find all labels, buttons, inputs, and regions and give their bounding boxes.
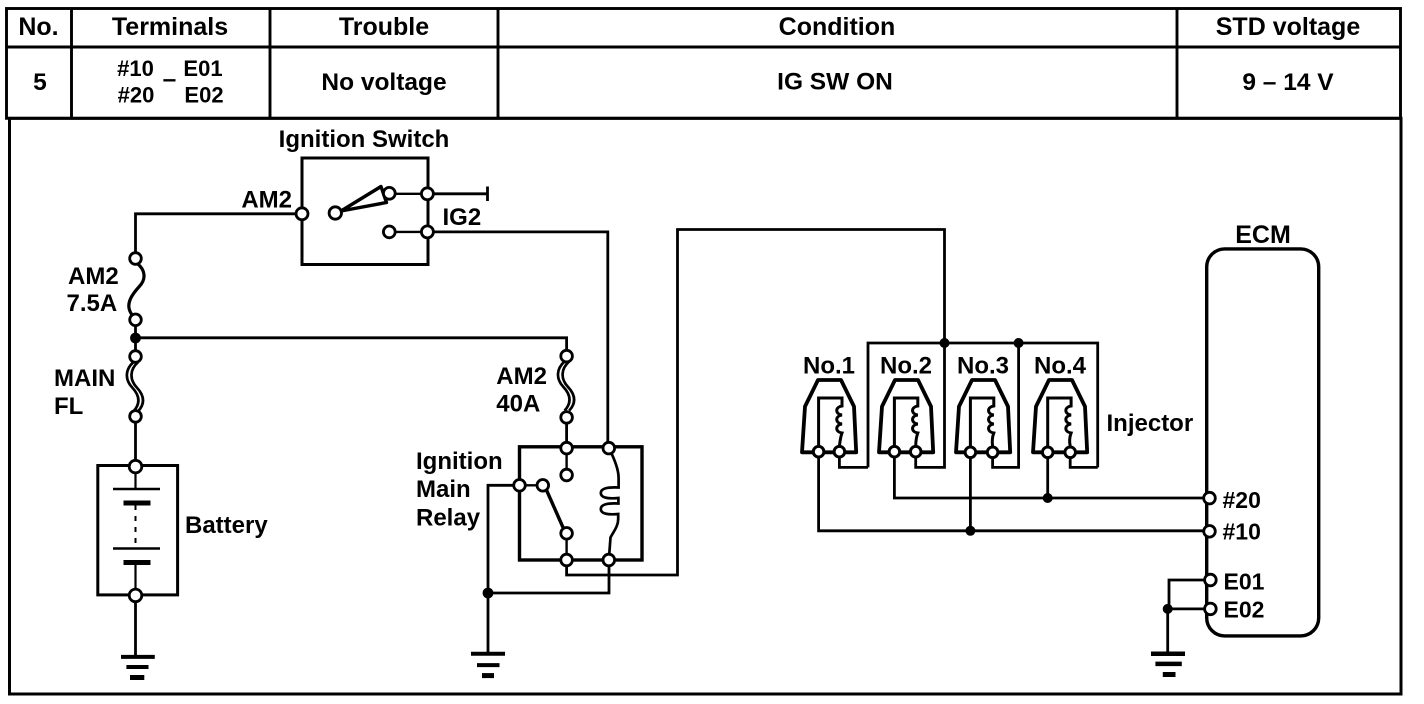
junction node power bus No.3 bbox=[1014, 338, 1024, 348]
wire battery to AM2 terminal bbox=[136, 214, 303, 259]
svg-text:E02: E02 bbox=[184, 83, 223, 108]
pin E01 bbox=[1205, 574, 1217, 586]
switch pivot bbox=[329, 207, 341, 219]
svg-text:No.4: No.4 bbox=[1034, 353, 1087, 380]
relay pivot contact bbox=[537, 480, 549, 492]
svg-text:9 – 14 V: 9 – 14 V bbox=[1242, 69, 1334, 96]
wire relay coil to ground junction bbox=[488, 560, 609, 593]
schematic frame bbox=[10, 118, 1402, 694]
svg-text:No.2: No.2 bbox=[880, 353, 932, 380]
junction node relay ground bbox=[483, 588, 494, 599]
svg-text:IG SW ON: IG SW ON bbox=[777, 69, 893, 96]
wire E02 to ground junction bbox=[1168, 608, 1211, 611]
terminal top right bbox=[421, 188, 433, 200]
fuse F2 terminals bbox=[561, 350, 573, 423]
svg-text:Ignition Switch: Ignition Switch bbox=[279, 126, 450, 153]
svg-text:ECM: ECM bbox=[1235, 221, 1291, 249]
injector No.3 terminals bbox=[965, 447, 998, 458]
terminal IG2 bbox=[421, 226, 433, 238]
svg-text:Ignition: Ignition bbox=[416, 448, 503, 475]
junction node #10 line bbox=[965, 526, 975, 536]
svg-text:IG2: IG2 bbox=[443, 204, 482, 231]
switch blade bbox=[341, 187, 387, 212]
svg-text:#10: #10 bbox=[1223, 519, 1261, 545]
wire E01 to ground junction bbox=[1169, 580, 1210, 609]
svg-text:#10: #10 bbox=[117, 56, 154, 81]
injector No.1 bbox=[802, 353, 856, 458]
table column line 2 bbox=[269, 9, 272, 119]
svg-text:E01: E01 bbox=[1224, 569, 1265, 595]
switch blade contact bbox=[383, 187, 395, 199]
svg-text:Battery: Battery bbox=[185, 512, 268, 539]
relay moving contact bbox=[561, 528, 573, 540]
injector No.2 body bbox=[879, 380, 933, 452]
svg-text:–: – bbox=[163, 66, 177, 93]
svg-text:#20: #20 bbox=[1223, 487, 1261, 513]
injector No.2 bbox=[879, 353, 933, 458]
IGNITION SWITCH bbox=[241, 126, 481, 265]
svg-text:Injector: Injector bbox=[1107, 410, 1194, 437]
svg-text:Terminals: Terminals bbox=[112, 13, 228, 41]
svg-text:Condition: Condition bbox=[779, 13, 896, 41]
FUSE AM2 40A bbox=[496, 350, 574, 423]
wire No.3 drop to #10 line bbox=[969, 452, 972, 531]
wire injector power bus bbox=[868, 343, 1098, 467]
junction node ECM ground bbox=[1163, 604, 1173, 614]
IG2 contact line bbox=[389, 231, 427, 233]
injector No.1 terminals bbox=[813, 446, 844, 457]
wire relay pivot to ground bbox=[488, 485, 520, 654]
table column line 1 bbox=[70, 9, 73, 119]
wire injector No.1 power wrap bbox=[839, 452, 868, 468]
pin #10 bbox=[1204, 526, 1216, 538]
svg-text:No voltage: No voltage bbox=[321, 69, 446, 96]
ground battery bbox=[121, 657, 155, 678]
table column line 3 bbox=[497, 9, 500, 119]
TABLE bbox=[7, 9, 1401, 119]
wire No.4 drop to #20 line bbox=[1046, 452, 1049, 498]
IG2 inner contact bbox=[383, 226, 395, 238]
svg-text:#20: #20 bbox=[118, 83, 155, 108]
svg-text:AM2: AM2 bbox=[496, 363, 547, 390]
ECM box bbox=[1207, 249, 1319, 636]
wire fuse to junction to AM2 40A bbox=[134, 326, 137, 351]
relay terminal bottom right bbox=[603, 554, 615, 566]
wire relay output to injectors bbox=[567, 230, 945, 576]
svg-text:Trouble: Trouble bbox=[339, 13, 429, 41]
pin E02 bbox=[1205, 603, 1217, 615]
wire injector No.4 power wrap bbox=[1070, 452, 1098, 467]
fusible link terminals bbox=[130, 351, 142, 423]
relay coil bbox=[601, 448, 619, 560]
FUSIBLE LINK MAIN FL bbox=[54, 351, 143, 423]
relay arm bbox=[546, 489, 564, 529]
battery box bbox=[98, 466, 178, 595]
wire ECM ground drop bbox=[1166, 609, 1169, 654]
ECM bbox=[1204, 221, 1319, 636]
wire switch output with end tick bbox=[427, 192, 487, 195]
injector No.4 body bbox=[1033, 380, 1087, 452]
relay fixed contact bbox=[561, 469, 573, 481]
injector No.1 coil bbox=[819, 398, 842, 447]
relay pivot link bbox=[520, 484, 543, 486]
fuse AM2 40A element bbox=[558, 362, 570, 411]
wire injector No.3 power wrap bbox=[993, 343, 1019, 467]
svg-text:AM2: AM2 bbox=[68, 263, 119, 290]
wire battery to ground bbox=[134, 602, 137, 657]
wire MAIN FL to battery bbox=[134, 422, 137, 466]
injector No.4 bbox=[1033, 353, 1087, 458]
FUSE AM2 7.5A bbox=[67, 253, 145, 326]
relay terminal bottom left bbox=[561, 554, 573, 566]
junction node at fuses bbox=[130, 333, 141, 344]
injector No.4 terminals bbox=[1042, 447, 1075, 458]
svg-text:5: 5 bbox=[33, 69, 47, 96]
svg-text:7.5A: 7.5A bbox=[67, 290, 118, 317]
wire injector No.2 power wrap bbox=[916, 343, 945, 467]
ground relay bbox=[471, 654, 505, 676]
pin #20 bbox=[1204, 492, 1216, 504]
table border bbox=[7, 9, 1401, 119]
relay lower contact link bbox=[565, 533, 567, 560]
fuse F1 terminals bbox=[130, 253, 142, 326]
ground ECM bbox=[1151, 654, 1185, 675]
svg-text:Relay: Relay bbox=[416, 505, 481, 532]
junction node power bus No.2 bbox=[940, 338, 950, 348]
fuse AM2 7.5A element bbox=[129, 264, 144, 318]
svg-text:AM2: AM2 bbox=[241, 187, 292, 214]
injector No.3 bbox=[956, 353, 1010, 458]
svg-text:No.3: No.3 bbox=[957, 353, 1009, 380]
svg-text:No.: No. bbox=[18, 13, 58, 41]
BATTERY bbox=[98, 460, 269, 601]
battery cells bbox=[113, 473, 160, 590]
svg-text:FL: FL bbox=[54, 393, 83, 420]
svg-text:40A: 40A bbox=[496, 391, 540, 418]
switch contact line bbox=[389, 193, 427, 195]
wire No.1 to ECM #10 bbox=[819, 452, 1210, 531]
relay terminal left bbox=[514, 480, 526, 492]
relay terminal top right bbox=[603, 442, 615, 454]
svg-text:E01: E01 bbox=[183, 56, 222, 81]
injector No.2 terminals bbox=[889, 446, 921, 457]
battery + terminal bbox=[129, 460, 142, 473]
injector No.3 coil bbox=[970, 398, 993, 447]
wire AM2 40A to relay bbox=[565, 423, 568, 448]
junction node #20 line bbox=[1043, 493, 1053, 503]
injector No.3 body bbox=[956, 380, 1010, 452]
injector No.4 coil bbox=[1048, 398, 1071, 447]
relay terminal top left bbox=[561, 442, 573, 454]
fusible link element bbox=[127, 362, 139, 411]
svg-text:STD voltage: STD voltage bbox=[1216, 13, 1361, 41]
svg-text:Main: Main bbox=[416, 476, 471, 503]
ignition switch box bbox=[302, 158, 428, 265]
svg-text:E02: E02 bbox=[1224, 597, 1265, 623]
table column line 4 bbox=[1176, 9, 1179, 119]
battery - terminal bbox=[129, 589, 142, 602]
injector No.1 body bbox=[802, 380, 856, 452]
wire No.2 to ECM #20 bbox=[894, 452, 1210, 498]
svg-text:MAIN: MAIN bbox=[54, 365, 115, 392]
IGNITION MAIN RELAY bbox=[416, 442, 642, 565]
relay contact stub bbox=[565, 448, 567, 469]
injector No.2 coil bbox=[894, 398, 917, 447]
terminal AM2 bbox=[296, 208, 308, 220]
table header divider bbox=[7, 46, 1401, 49]
wire IG2 to relay coil bbox=[427, 232, 607, 448]
relay box bbox=[520, 447, 643, 560]
svg-text:No.1: No.1 bbox=[803, 353, 855, 380]
